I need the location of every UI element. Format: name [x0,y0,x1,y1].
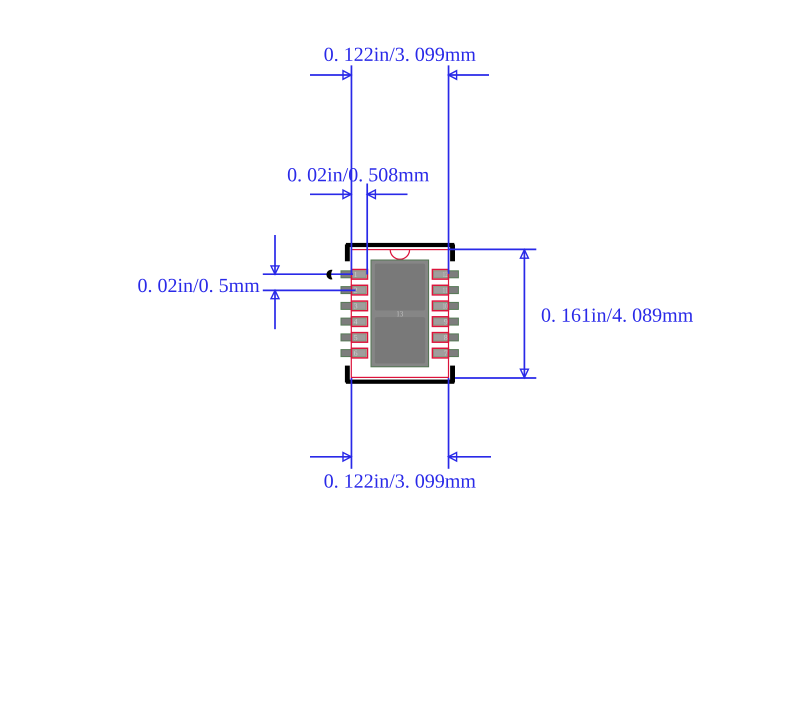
node arrowhead 508 right [367,190,375,199]
wire extension line left x=351 [350,65,352,274]
pad 5 land [341,334,366,341]
pin label 3 [354,303,357,308]
pad 1 land [341,271,366,278]
pad 7 land [433,350,458,357]
pad 5 pin outline [352,333,368,343]
node arrowhead height down [520,369,528,378]
pad 3 pin outline [352,301,368,311]
dimension pin width 0.02in/0.508mm [310,184,408,275]
wire top arrow leaders [310,74,351,76]
thermal pad 13 [371,260,429,367]
silkscreen top-left stub [345,244,350,261]
wire leaders y=194 [310,193,351,195]
pad 11 pin outline [432,285,448,295]
silkscreen bottom-right stub [450,366,455,383]
node datum arrow black crescent [326,270,332,280]
pin label 13 [397,311,403,316]
pad 7 pin outline [432,348,448,358]
node arrowhead top-left [343,71,351,80]
wire extension x=367 [366,184,368,275]
pad 2 pin outline [352,285,368,295]
pad 6 pin outline [352,348,368,358]
node arrowhead height up [520,250,528,259]
pad 4 land [341,318,366,325]
wire bottom arrow leaders [310,456,351,458]
pin label 11 [443,288,447,293]
pin label 8 [444,335,447,340]
pin label 4 [354,319,358,324]
pad 10 pin outline [432,301,448,311]
pin label 9 [444,319,447,324]
node arrowhead bottom-right [448,453,456,462]
value label 0.02in/0.508mm [288,168,429,182]
dimension height 0.161in/4.089mm right [448,249,536,378]
value label 0.161in/4.089mm [542,308,693,322]
node arrowhead pitch down [271,266,279,274]
wire horizontal pad2 center [263,289,356,291]
pad 6 land [341,350,366,357]
value label 0.122in/3.099mm bottom [324,474,475,488]
pad 12 pin outline [432,270,448,280]
silkscreen bottom-left stub [345,366,350,383]
thermal pad paste zone lower [375,317,425,363]
pad 9 pin outline [432,317,448,327]
pin label 7 [444,351,447,356]
pad 4 pin outline [352,317,368,327]
pad 8 pin outline [432,333,448,343]
body outline U1 [351,250,448,378]
silkscreen top bar [346,243,454,247]
node arrowhead pitch up [271,290,279,298]
value label 0.122in/3.099mm top [324,48,475,62]
pad 12 land [433,271,458,278]
dimension top width 0.122in/3.099mm [310,65,491,468]
pin 1 marker arc [390,250,409,260]
wire horizontal pad1 center [263,273,353,275]
wire extension top y=249 [448,248,536,250]
pad 9 land [433,318,458,325]
node arrowhead bottom-left [343,453,351,462]
pad 1 pin outline [352,270,368,280]
pin label 2 [354,288,357,293]
pad 11 land [433,287,458,294]
node arrowhead 508 left [343,190,351,199]
pad 8 land [433,334,458,341]
dimension pitch 0.02in/0.5mm left [263,235,356,329]
thermal pad paste zone upper [375,264,425,311]
pad 2 land [341,287,366,294]
pin label 5 [354,335,357,340]
silkscreen bottom bar [346,380,454,384]
pin label 1 [354,272,357,277]
wire extension line right x=448 [448,65,450,274]
pin label 10 [443,303,448,308]
pin label 12 [443,272,447,277]
wire vertical x=524 [523,249,525,378]
silkscreen top-right stub [450,244,455,261]
wire vertical x=275 [274,235,276,274]
pad 3 land [341,302,366,309]
pin label 6 [354,351,357,356]
value label 0.02in/0.5mm [138,279,259,293]
node arrowhead top-right [448,71,456,80]
wire extension bottom y=378 [455,377,536,379]
pad 10 land [433,302,458,309]
